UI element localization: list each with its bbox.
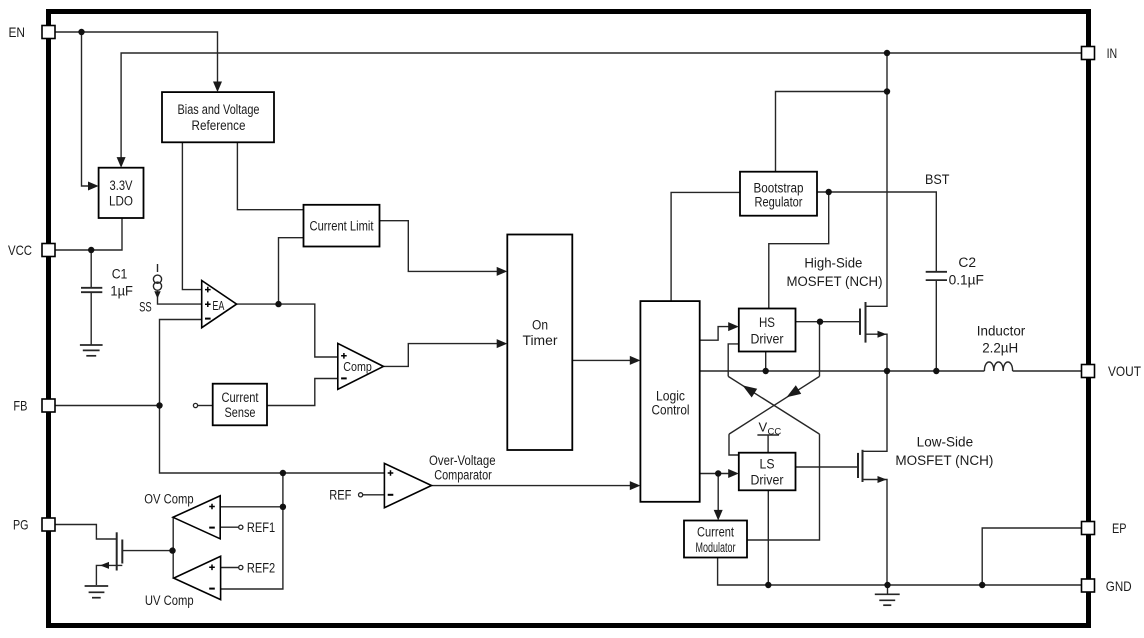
svg-text:Timer: Timer <box>523 333 559 348</box>
arrowhead into LS Driver from Logic Control <box>728 469 739 478</box>
svg-text:2.2µH: 2.2µH <box>982 341 1018 356</box>
block Logic Control <box>640 301 699 502</box>
arrowhead LS source <box>878 476 887 483</box>
transistor Q3 PG pull-down MOSFET <box>117 532 123 570</box>
comparator UV Comp <box>174 556 221 599</box>
svg-text:UV Comp: UV Comp <box>145 593 194 608</box>
svg-text:Comp: Comp <box>343 359 372 374</box>
arrowhead PG source <box>100 562 109 569</box>
node BST junction <box>826 189 832 195</box>
wire LS Driver bottom to ground line <box>767 490 769 585</box>
svg-text:IN: IN <box>1107 45 1118 61</box>
wire VCC junction down to C1 <box>90 250 92 287</box>
arrowhead into HS Driver from Logic Control <box>728 322 739 331</box>
svg-text:EN: EN <box>9 24 26 40</box>
svg-text:Reference: Reference <box>192 118 246 133</box>
svg-text:LS: LS <box>760 456 775 471</box>
svg-text:C1: C1 <box>112 267 128 282</box>
op-amp EA (error amplifier) <box>202 281 237 328</box>
wire C2 bottom to SW node <box>935 281 937 371</box>
block LS Driver <box>739 453 796 491</box>
capacitor C2 <box>926 272 947 280</box>
wire over-voltage comparator output to Logic Control <box>432 485 631 487</box>
wire LS Driver output to LS MOSFET gate <box>796 466 859 468</box>
node PG comparator bus junction <box>169 547 175 553</box>
arrowhead cross-couple toward HS Driver <box>743 385 758 397</box>
svg-text:SS: SS <box>139 299 152 314</box>
svg-text:REF: REF <box>329 488 351 503</box>
svg-text:EP: EP <box>1112 520 1127 536</box>
node FB comparator branch junction <box>280 470 286 476</box>
wire HS Driver output to HS MOSFET gate <box>796 321 861 323</box>
svg-text:Sense: Sense <box>225 405 256 420</box>
svg-text:Control: Control <box>652 402 690 417</box>
wire LS MOSFET source down to ground line <box>863 480 888 586</box>
arrowhead into LDO top <box>117 157 126 168</box>
wire FB pin to FB junction <box>55 405 160 407</box>
wire Bias right output to Current Limit input <box>237 142 303 209</box>
wire cross-couple diagonal from HS gate to LS driver <box>729 376 820 434</box>
wire EA output junction up to Current Limit second input <box>279 238 304 304</box>
current source SS <box>153 275 161 290</box>
wire EP pin branch <box>982 528 1081 585</box>
pin EN <box>9 24 56 40</box>
wire FB branch down to OV Comp plus junction <box>282 473 284 507</box>
svg-text:MOSFET (NCH): MOSFET (NCH) <box>787 274 883 289</box>
wire inductor to VOUT pin <box>1013 370 1082 372</box>
svg-text:PG: PG <box>13 516 29 532</box>
pin PG <box>13 516 55 532</box>
wire On Timer output to Logic Control <box>572 359 630 361</box>
wire Comp output to On Timer <box>383 344 497 367</box>
block Current Limit <box>304 205 380 247</box>
wire EN pin to Bias top corner <box>55 32 218 83</box>
pin VCC <box>8 242 55 258</box>
block Bootstrap Regulator <box>740 172 817 216</box>
capacitor C1 <box>81 288 102 292</box>
wire LS MOSFET drain to SW node <box>863 371 888 451</box>
svg-text:REF2: REF2 <box>247 560 275 575</box>
transistor Q2 low-side MOSFET <box>858 450 863 482</box>
svg-text:VOUT: VOUT <box>1108 363 1141 379</box>
wire REF1 stub <box>220 526 239 528</box>
terminal REF1 <box>239 525 243 529</box>
svg-text:0.1µF: 0.1µF <box>949 273 984 288</box>
wire SS current source stub <box>157 264 159 272</box>
wire Logic Control top to Bootstrap Regulator input <box>671 192 740 301</box>
wire IN vertical to HS MOSFET drain <box>866 53 888 306</box>
wire VCC pin to LDO bottom <box>55 218 122 250</box>
wire PG pin to PG MOSFET gate <box>55 525 117 540</box>
pin IN <box>1082 45 1118 61</box>
svg-text:Bootstrap: Bootstrap <box>754 181 804 196</box>
arrowhead into Logic Control from On Timer <box>630 356 641 365</box>
inductor L 2.2uH <box>984 362 1012 371</box>
node LS input junction <box>715 470 721 476</box>
wire HS Driver bottom to SW node <box>765 352 767 372</box>
transistor Q1 high-side MOSFET <box>860 302 866 343</box>
svg-text:BST: BST <box>925 172 950 187</box>
svg-text:Comparator: Comparator <box>434 468 492 483</box>
svg-text:VCC: VCC <box>8 242 32 258</box>
node HS gate junction <box>817 319 823 325</box>
svg-text:MOSFET (NCH): MOSFET (NCH) <box>895 453 993 468</box>
ground under C1 <box>80 345 103 356</box>
ground main power ground <box>875 594 900 605</box>
wire LS input junction down to Current Modulator <box>717 474 719 511</box>
wire UV Comp minus input loop <box>221 507 283 589</box>
svg-text:Modulator: Modulator <box>696 540 736 555</box>
arrowhead into On Timer from Current Limit <box>497 267 508 276</box>
wire switch node SW line to inductor <box>700 370 985 372</box>
wire Bootstrap output BST line to C2 <box>817 192 936 271</box>
arrowhead cross-couple toward LS Driver <box>787 385 802 397</box>
svg-text:HS: HS <box>759 315 775 330</box>
svg-text:GND: GND <box>1106 578 1132 594</box>
terminal Current Sense input <box>193 403 197 407</box>
svg-text:Current: Current <box>697 525 734 540</box>
block Bias and Voltage Reference <box>162 92 274 142</box>
wire EA output to Comp plus input <box>237 304 338 357</box>
terminal REF2 <box>239 565 243 569</box>
block Current Modulator <box>684 521 747 558</box>
wire SS node to EA mid plus input <box>158 291 202 304</box>
pin GND <box>1082 578 1132 594</box>
node EN junction <box>78 29 84 35</box>
wire FB junction down and right to OV comparator plus <box>160 406 385 474</box>
wire Vcc bar to LS Driver top <box>767 435 769 453</box>
wire Bootstrap Regulator top to IN vertical <box>776 92 888 172</box>
svg-text:FB: FB <box>13 397 27 413</box>
node ground MOSFET junction <box>884 582 890 588</box>
svg-text:1µF: 1µF <box>110 284 132 299</box>
pin EP <box>1082 520 1127 536</box>
arrowhead into Bias top <box>213 82 222 93</box>
svg-text:Over-Voltage: Over-Voltage <box>429 453 496 468</box>
node bootstrap tap junction <box>884 88 890 94</box>
arrowhead into LDO left <box>88 182 99 191</box>
node VCC C1 junction <box>88 247 94 253</box>
node FB junction <box>156 402 162 408</box>
svg-text:REF1: REF1 <box>247 520 275 535</box>
block On Timer <box>507 235 572 451</box>
node OV plus junction <box>280 504 286 510</box>
svg-text:Current: Current <box>222 390 259 405</box>
svg-text:Bias and Voltage: Bias and Voltage <box>178 102 260 117</box>
svg-text:V: V <box>759 420 768 435</box>
wire Bias left output to EA plus input <box>182 142 201 289</box>
arrowhead HS source <box>878 331 887 338</box>
node ground EP junction <box>979 582 985 588</box>
wire IN rail <box>121 53 1082 158</box>
arrowhead into Logic Control from over-voltage comparator <box>630 481 641 490</box>
wire Current Sense output to Comp minus input <box>267 379 338 406</box>
power symbol Vcc for LS Driver <box>757 420 781 438</box>
svg-text:C2: C2 <box>958 255 976 270</box>
wire HS MOSFET source to SW node <box>866 334 888 371</box>
wire REF stub to over-voltage comparator minus <box>363 494 385 496</box>
arrowhead into On Timer from Comp <box>497 339 508 348</box>
wire Logic Control to LS Driver input <box>700 473 730 475</box>
block HS Driver <box>739 309 796 352</box>
svg-text:Regulator: Regulator <box>755 195 803 210</box>
comparator U-OVC over-voltage <box>384 463 431 507</box>
wire ground symbol stub <box>887 585 889 594</box>
node IN rail junction <box>884 50 890 56</box>
node SW MOSFET junction <box>884 368 890 374</box>
comparator Comp <box>338 343 384 389</box>
node SW HS driver junction <box>763 368 769 374</box>
node EA output junction <box>275 301 281 307</box>
wire Current Limit output to On Timer <box>380 221 498 272</box>
wire HS gate junction down <box>819 322 821 377</box>
wire cross-couple into LS Driver input <box>729 434 739 455</box>
svg-text:LDO: LDO <box>109 194 133 209</box>
svg-text:EA: EA <box>212 298 224 313</box>
svg-text:High-Side: High-Side <box>804 256 862 271</box>
pin VOUT <box>1082 363 1142 379</box>
wire Bootstrap output junction to HS Driver supply <box>769 192 829 309</box>
svg-text:3.3V: 3.3V <box>110 178 133 193</box>
svg-text:CC: CC <box>768 426 782 437</box>
wire OV UV comparator output bus <box>172 517 174 578</box>
wire Logic Control to HS Driver input <box>700 327 730 341</box>
arrowhead into Current Modulator top <box>714 510 723 521</box>
svg-text:On: On <box>532 317 548 332</box>
svg-text:Low-Side: Low-Side <box>917 435 973 450</box>
node ground LS driver junction <box>765 582 771 588</box>
terminal REF <box>359 493 363 497</box>
wire cross-couple diagonal from current modulator to HS driver <box>728 376 819 434</box>
comparator OV Comp <box>173 496 220 539</box>
pin FB <box>13 397 55 413</box>
wire OV Comp plus input <box>220 506 283 508</box>
svg-text:Logic: Logic <box>656 388 685 403</box>
ground under PG MOSFET <box>85 586 109 598</box>
wire C1 to ground <box>90 293 92 345</box>
svg-text:Driver: Driver <box>751 331 784 346</box>
svg-text:Inductor: Inductor <box>977 324 1026 339</box>
svg-text:Driver: Driver <box>751 472 784 487</box>
wire Current Modulator bottom to ground line <box>718 558 1082 586</box>
block 3.3V LDO <box>99 168 144 218</box>
wire REF2 stub <box>221 567 239 569</box>
wire PG MOSFET drain to comparator bus <box>122 550 172 552</box>
wire cross-couple HS input branch <box>728 344 739 377</box>
svg-text:OV Comp: OV Comp <box>144 491 193 506</box>
wire Current Sense input stub <box>198 405 213 407</box>
node SW C2 junction <box>933 368 939 374</box>
svg-text:Current Limit: Current Limit <box>310 218 374 233</box>
wire PG MOSFET source to ground <box>96 565 122 585</box>
wire EN junction down to LDO left input <box>82 32 90 186</box>
block Current Sense <box>213 384 267 426</box>
wire cross-couple down to Current Modulator output <box>747 434 820 540</box>
wire EA minus input to FB node <box>160 320 202 406</box>
